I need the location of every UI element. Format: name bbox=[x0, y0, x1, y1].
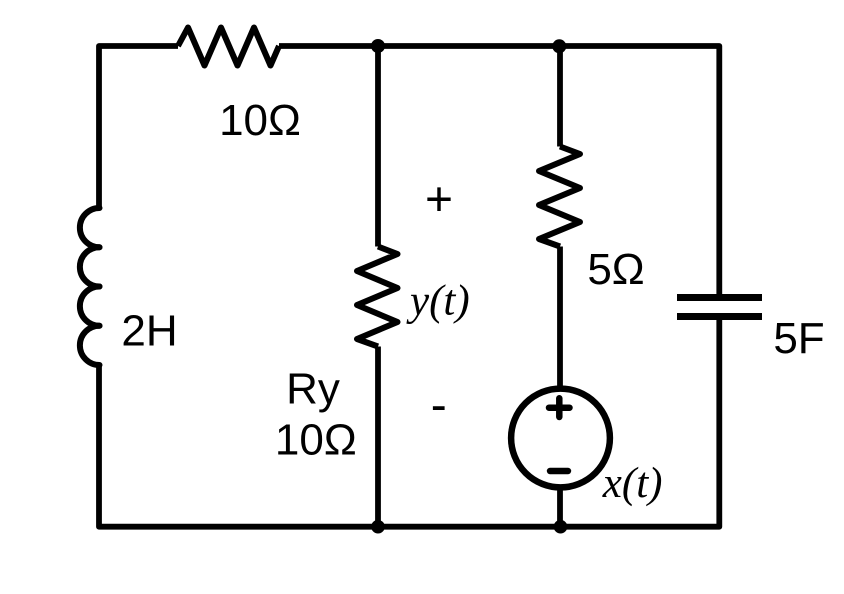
voltage source U1 circle bbox=[511, 389, 610, 488]
capacitor C1 bottom plate bbox=[677, 313, 762, 320]
wire top-left corner bbox=[99, 46, 178, 208]
svg-text:+: + bbox=[425, 173, 453, 226]
source plus sign horizontal bbox=[549, 404, 570, 411]
wire source to bottom rail bbox=[557, 487, 563, 527]
capacitor C1 top plate bbox=[677, 294, 762, 301]
wire middle branch upper bbox=[375, 46, 381, 247]
resistor R1 10ohm bbox=[178, 28, 279, 66]
inductor L1 coil 2 bbox=[80, 247, 100, 286]
inductor L1 coil 4 bbox=[80, 326, 100, 365]
node dot bottom-right-branch bbox=[554, 520, 568, 534]
wire middle branch lower bbox=[375, 347, 381, 527]
source plus sign vertical bbox=[556, 398, 563, 417]
svg-text:x(t): x(t) bbox=[602, 460, 663, 507]
svg-text:Ry: Ry bbox=[286, 365, 340, 414]
svg-text:10Ω: 10Ω bbox=[219, 96, 301, 145]
svg-text:5F: 5F bbox=[773, 314, 824, 363]
inductor L1 coil 3 bbox=[80, 287, 100, 326]
inductor L1 coil 1 bbox=[80, 208, 100, 247]
svg-text:5Ω: 5Ω bbox=[587, 245, 644, 294]
svg-text:-: - bbox=[431, 379, 447, 432]
node dot bottom-middle bbox=[371, 520, 385, 534]
wire right-bottom bbox=[99, 320, 719, 527]
wire 5ohm to source bbox=[557, 247, 563, 390]
svg-text:2H: 2H bbox=[121, 307, 177, 356]
node dot top-right-branch bbox=[552, 39, 566, 53]
wire 5ohm branch upper bbox=[557, 46, 563, 147]
svg-text:10Ω: 10Ω bbox=[275, 416, 357, 465]
svg-text:y(t): y(t) bbox=[406, 278, 470, 325]
source minus sign bbox=[550, 468, 568, 474]
resistor R2 5ohm bbox=[539, 147, 580, 247]
wire top rail bbox=[279, 46, 719, 295]
resistor Ry 10ohm bbox=[357, 247, 398, 347]
node dot top-middle bbox=[371, 39, 385, 53]
